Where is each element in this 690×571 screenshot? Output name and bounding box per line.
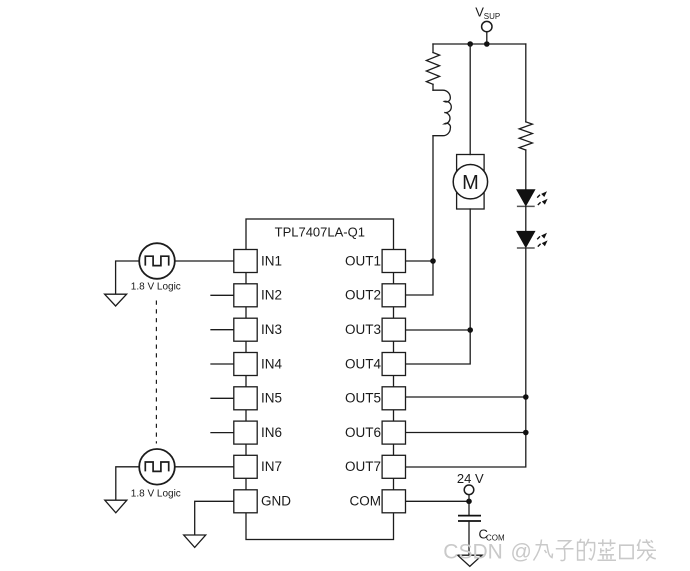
wire OUT3 stub: [406, 329, 471, 331]
watermark char wan: [534, 540, 553, 561]
wire LED1 to LED2: [525, 206, 527, 231]
svg-text:IN2: IN2: [261, 288, 282, 303]
wire OUT5 stub: [406, 396, 526, 398]
LED D1: [517, 190, 548, 207]
svg-text:SUP: SUP: [484, 12, 500, 21]
wire VSUP stub: [486, 32, 488, 44]
svg-text:OUT5: OUT5: [345, 391, 381, 406]
wire OUT6 stub: [406, 432, 526, 434]
pin IN5 box: [234, 387, 257, 410]
wire GND to ground: [195, 501, 234, 535]
terminal 24V circle: [464, 485, 474, 495]
wire R to L: [432, 84, 434, 90]
LED D2: [517, 231, 548, 248]
label CCOM: [479, 526, 506, 542]
dashed link V1-V2: [155, 301, 157, 444]
svg-text:IN5: IN5: [261, 391, 282, 406]
svg-text:OUT3: OUT3: [345, 322, 381, 337]
svg-text:@: @: [511, 540, 532, 563]
svg-text:TPL7407LA-Q1: TPL7407LA-Q1: [275, 225, 365, 240]
svg-text:IN7: IN7: [261, 459, 282, 474]
wire stub IN2: [211, 294, 234, 296]
node VSUP label: [475, 5, 500, 21]
svg-text:OUT7: OUT7: [345, 459, 381, 474]
pin IN2 box: [234, 284, 257, 307]
pin IN4 box: [234, 353, 257, 376]
wire node to capacitor: [468, 501, 470, 515]
junction dot OUT5 node: [523, 394, 529, 400]
wire top rail: [433, 43, 526, 45]
pin OUT4 box: [382, 353, 405, 376]
wire LED branch from rail: [525, 44, 527, 122]
wire COM to 24V node: [406, 500, 470, 502]
wire stub IN6: [211, 432, 234, 434]
wire LED2 down to OUT7: [406, 248, 526, 467]
wire motor branch from rail: [469, 44, 471, 155]
resistor R (LED branch): [519, 122, 532, 150]
junction dot A (motor tap): [467, 41, 473, 47]
junction dot OUT6 node: [523, 430, 529, 436]
svg-text:1.8 V Logic: 1.8 V Logic: [131, 489, 181, 500]
wire stub IN3: [211, 329, 234, 331]
wire stub IN5: [211, 397, 234, 399]
ground (source V1): [105, 294, 127, 306]
watermark char kou: [620, 545, 633, 558]
watermark char de: [578, 539, 595, 560]
pin OUT3 box: [382, 318, 405, 341]
pin OUT7 box: [382, 455, 405, 478]
source V1 circle: [139, 243, 175, 279]
svg-text:OUT6: OUT6: [345, 425, 381, 440]
wire L down to OUT1 node: [406, 136, 434, 295]
svg-text:GND: GND: [261, 494, 291, 509]
pin IN1 box: [234, 250, 257, 273]
svg-text:IN1: IN1: [261, 253, 282, 268]
ground (CCOM): [458, 555, 482, 566]
op IC U1 TPL7407LA-Q1 body: [246, 219, 394, 540]
pin IN3 box: [234, 318, 257, 341]
watermark char lan: [598, 539, 617, 560]
svg-text:24 V: 24 V: [457, 471, 484, 486]
wire R to LED1: [525, 150, 527, 190]
wire stub to 24V terminal: [468, 495, 470, 502]
ground (source V2): [105, 500, 127, 513]
pin OUT1 box: [382, 250, 405, 273]
svg-text:COM: COM: [350, 494, 382, 509]
motor M circle: [453, 165, 487, 199]
svg-text:IN4: IN4: [261, 356, 283, 371]
pin IN7 box: [234, 455, 257, 478]
pin COM box: [382, 490, 405, 513]
wire OUT1 to node: [406, 260, 434, 262]
pin IN6 box: [234, 421, 257, 444]
svg-text:OUT1: OUT1: [345, 253, 381, 268]
junction dot OUT1 node: [430, 258, 436, 264]
junction dot COM node: [466, 499, 472, 505]
wire V2 to ground: [116, 467, 139, 500]
svg-text:OUT2: OUT2: [345, 288, 381, 303]
svg-text:CSDN: CSDN: [443, 540, 503, 563]
wire capacitor to ground: [468, 521, 470, 555]
pin GND box: [234, 490, 257, 513]
terminal VSUP circle: [482, 21, 492, 31]
svg-text:IN3: IN3: [261, 322, 282, 337]
resistor R (left branch): [426, 53, 439, 85]
motor U frame: [457, 155, 485, 210]
wire top rail to resistor R (left): [432, 44, 434, 53]
wire stub IN4: [211, 363, 234, 365]
wire V1 to IN1: [175, 260, 234, 262]
ground (GND pin): [184, 535, 206, 547]
pin OUT6 box: [382, 421, 405, 444]
watermark char zi: [556, 541, 574, 561]
inductor L: [433, 90, 451, 136]
junction dot OUT3 node: [467, 327, 473, 333]
svg-text:IN6: IN6: [261, 425, 282, 440]
junction dot VSUP: [484, 41, 490, 47]
wire motor to OUT3 node: [406, 209, 471, 364]
capacitor CCOM: [458, 516, 481, 521]
wire V1 to ground: [116, 261, 140, 294]
wire V2 to IN7: [175, 466, 234, 468]
svg-text:OUT4: OUT4: [345, 356, 381, 371]
pin OUT2 box: [382, 284, 405, 307]
pin OUT5 box: [382, 387, 405, 410]
svg-text:1.8 V Logic: 1.8 V Logic: [131, 282, 181, 293]
source V2 circle: [139, 449, 175, 485]
watermark char dai: [637, 539, 656, 561]
svg-text:M: M: [462, 172, 479, 194]
